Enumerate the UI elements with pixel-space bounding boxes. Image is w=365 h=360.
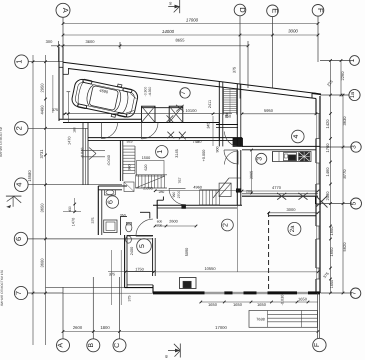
svg-text:4770: 4770 <box>272 185 282 190</box>
svg-text:3650: 3650 <box>40 203 45 213</box>
svg-text:8770: 8770 <box>342 169 347 179</box>
column P2-x <box>176 105 184 112</box>
svg-text:4490: 4490 <box>40 105 45 115</box>
svg-text:345: 345 <box>207 122 211 128</box>
svg-text:A: A <box>58 343 65 348</box>
wall junction-b1 <box>182 205 186 209</box>
wall bay-door-jamb <box>156 200 158 219</box>
wall left-low <box>124 235 126 288</box>
svg-text:ЛИНИЯ ОТМОСТКИ 150: ЛИНИЯ ОТМОСТКИ 150 <box>0 270 4 306</box>
svg-text:1: 1 <box>157 150 164 154</box>
node axis-7-left <box>14 286 27 299</box>
svg-text:15580: 15580 <box>27 170 32 182</box>
svg-text:ю: ю <box>168 2 173 5</box>
svg-text:5: 5 <box>139 244 146 248</box>
dim bottom-main <box>63 331 318 333</box>
svg-text:-4.350: -4.350 <box>148 87 152 97</box>
svg-text:1: 1 <box>14 60 23 64</box>
svg-text:375: 375 <box>128 296 132 302</box>
svg-text:7480: 7480 <box>193 139 203 144</box>
dim right-outer-chain <box>342 95 344 293</box>
svg-text:180: 180 <box>72 127 76 133</box>
wall room5-bottom <box>125 271 155 273</box>
svg-text:17000: 17000 <box>186 18 199 23</box>
svg-text:F: F <box>316 8 325 13</box>
svg-text:1650: 1650 <box>257 302 267 307</box>
door bath2-arc <box>106 199 108 201</box>
wall hall-left-v <box>82 123 84 185</box>
svg-text:375: 375 <box>233 67 237 73</box>
column veranda-x1 <box>277 193 286 200</box>
dim top-14000-3000 <box>63 34 318 36</box>
dim left-inner-chain <box>45 55 47 345</box>
node axis-A-bottom <box>57 339 70 352</box>
dim top-300-3600-8655 <box>51 45 248 47</box>
wall room5-door-jamb <box>140 211 150 213</box>
svg-text:700: 700 <box>157 224 163 228</box>
svg-text:4960: 4960 <box>193 186 201 190</box>
column P1-x <box>167 115 174 122</box>
node axis-6-left <box>14 232 27 245</box>
node room-1 <box>156 146 168 158</box>
wall bath1-h <box>216 124 238 126</box>
svg-text:D: D <box>238 7 247 13</box>
symbol north-arrow-top <box>179 0 181 13</box>
svg-text:1650: 1650 <box>298 296 308 301</box>
svg-text:2,090: 2,090 <box>143 187 153 191</box>
wall topleft-corner <box>58 47 60 67</box>
svg-text:2950: 2950 <box>40 83 45 93</box>
wall right-outer <box>319 96 321 293</box>
svg-text:8655: 8655 <box>176 38 186 43</box>
node axis-7-right <box>350 288 360 298</box>
wire axis-6-left-leader <box>28 238 153 240</box>
node axis-5-right <box>351 198 362 209</box>
wire aux-chain-200 <box>241 146 243 196</box>
wall bottom-seg4 <box>268 291 298 294</box>
wall left-mid-top <box>98 185 127 187</box>
svg-text:2700: 2700 <box>177 191 181 199</box>
porch terrace-outline <box>249 311 318 328</box>
node axis-B-bottom <box>87 339 100 352</box>
wire axis-7-right-leader <box>321 292 351 294</box>
wire axis-2-left-leader <box>28 127 88 129</box>
svg-text:1500: 1500 <box>142 156 150 160</box>
door room2-bay <box>169 188 186 205</box>
wall stairwell-right-v <box>236 84 238 147</box>
window right-window-2 <box>316 163 318 184</box>
wall room2-divider-v <box>236 150 238 206</box>
wall bay-notch <box>157 199 163 201</box>
svg-text:375: 375 <box>91 218 95 224</box>
svg-text:4: 4 <box>293 134 300 138</box>
wire axis-3-right-leader <box>320 146 351 148</box>
svg-text:3731: 3731 <box>39 149 44 159</box>
stairs room2-landing <box>219 183 231 197</box>
svg-text:850: 850 <box>225 115 231 119</box>
node room-2 <box>222 219 234 231</box>
svg-text:5950: 5950 <box>264 108 274 113</box>
wire top-ext-b <box>119 42 121 49</box>
node axis-C-bottom <box>113 339 126 352</box>
svg-text:1a: 1a <box>350 91 356 98</box>
wire axis-7-left-leader <box>28 292 63 294</box>
node room-5 <box>137 239 152 254</box>
wall bottom-seg5 <box>308 291 320 294</box>
wire axis-E-leader <box>272 17 274 88</box>
fixture fireplace <box>180 278 197 289</box>
svg-text:3600: 3600 <box>86 39 96 44</box>
svg-text:925: 925 <box>127 140 133 144</box>
wall room5-left <box>152 238 154 276</box>
svg-text:C: C <box>114 343 121 348</box>
column P3-x <box>167 132 174 139</box>
stairs room2-flight <box>199 190 201 205</box>
svg-text:7: 7 <box>350 291 357 295</box>
fixture bath-tub <box>104 220 117 233</box>
wire axis-F-leader <box>317 16 319 62</box>
boundary room2-2a-dashed <box>268 212 270 292</box>
window bottom-window-4 <box>297 291 308 293</box>
column P1 <box>142 106 156 122</box>
svg-text:1700: 1700 <box>325 143 330 153</box>
column corner-x <box>316 196 328 208</box>
svg-text:7638: 7638 <box>256 318 264 322</box>
fixture room1-closet <box>137 161 165 177</box>
fixture bath-sink <box>105 190 116 195</box>
door hall-to-5 <box>136 219 153 236</box>
wall garage-left <box>58 62 60 121</box>
window bottom-window-2 <box>233 291 244 293</box>
svg-text:980: 980 <box>127 165 131 171</box>
svg-text:6: 6 <box>14 237 23 241</box>
door kitchen3 <box>225 151 239 165</box>
wire axis-D-leader <box>239 16 241 99</box>
column P4-x <box>179 132 186 140</box>
wire aux-10550-v <box>236 206 238 272</box>
car in carport <box>70 75 140 121</box>
wire grid7-inner <box>108 271 318 273</box>
svg-text:1470: 1470 <box>67 136 71 144</box>
dim right-chain-inner <box>330 61 332 294</box>
wall left-mid <box>97 186 99 235</box>
node axis-1a-right <box>349 89 360 100</box>
column veranda-x2 <box>299 193 308 200</box>
wall wc-divider <box>121 216 128 218</box>
wall veranda-parapet <box>242 195 318 197</box>
svg-text:ю: ю <box>164 355 169 358</box>
svg-text:E: E <box>271 8 280 13</box>
wall junction-b2 <box>236 189 241 193</box>
fixture kitchen-counter <box>273 152 312 162</box>
wall left-step <box>152 285 154 293</box>
node room-4 <box>292 130 305 143</box>
wall room5-right-low <box>153 272 156 277</box>
dim left-outer-chain <box>32 55 34 345</box>
svg-text:1460: 1460 <box>325 167 330 177</box>
node room-6 <box>106 196 118 208</box>
svg-text:2600: 2600 <box>73 325 83 330</box>
door bath1 <box>224 150 238 164</box>
wall stair-left-v <box>119 140 121 181</box>
wall bottom-seg1 <box>153 291 205 294</box>
svg-text:990: 990 <box>172 192 176 198</box>
wire grid7-left-ext <box>63 292 153 294</box>
svg-text:5090: 5090 <box>185 248 189 256</box>
dim top-17000 <box>63 23 318 25</box>
symbol section-arrow-bottom <box>179 344 181 358</box>
window right-window-4 <box>316 268 318 279</box>
wall right-inner-1 <box>315 99 317 114</box>
wire axis-1a-right-leader <box>320 94 349 96</box>
fixture kitchen-stove <box>284 153 297 161</box>
wall garage-bottom <box>59 118 142 120</box>
porch side-line <box>317 293 319 338</box>
wire axis-C-bottom-leader <box>119 277 121 339</box>
wire aux-375-line <box>108 271 155 273</box>
wall right-inner-4 <box>315 239 317 268</box>
svg-text:620: 620 <box>144 165 148 171</box>
wire axis-A-bottom-leader <box>62 287 64 339</box>
window right-window-1 <box>316 114 318 139</box>
dim bottom-1650s <box>201 301 318 303</box>
svg-text:3600: 3600 <box>40 258 45 268</box>
wire axis-A-leader <box>62 17 64 62</box>
svg-text:375: 375 <box>109 272 115 276</box>
svg-text:3630: 3630 <box>342 116 347 126</box>
svg-text:1650: 1650 <box>329 247 334 257</box>
wire axis-B-bottom-leader <box>92 277 94 339</box>
wall junction-block <box>233 138 243 146</box>
stairs shaft-ladder <box>224 89 237 91</box>
node axis-F-bottom <box>313 338 326 351</box>
svg-text:-0.030: -0.030 <box>281 295 285 306</box>
svg-text:1800: 1800 <box>100 325 110 330</box>
wall stairwell-left-v <box>218 81 220 146</box>
svg-text:3000: 3000 <box>288 29 298 34</box>
svg-text:2: 2 <box>222 223 229 227</box>
wall right-inner-3 <box>315 184 317 226</box>
door shaft-lobby <box>225 132 240 147</box>
svg-text:3145: 3145 <box>175 149 179 157</box>
svg-text:2260: 2260 <box>340 71 345 81</box>
porch steps <box>268 314 318 316</box>
wall topright-corner <box>311 93 313 99</box>
wall hall-main-h <box>88 137 242 139</box>
node axis-4-left <box>14 178 28 192</box>
node room-2a <box>288 222 301 235</box>
node axis-D-top <box>234 4 246 16</box>
node room-3 <box>256 153 267 164</box>
svg-text:2а: 2а <box>289 225 296 232</box>
wire axis-4-left-leader <box>28 184 122 186</box>
wire aux-left-垂直 <box>110 250 112 305</box>
svg-text:7: 7 <box>14 291 23 295</box>
fixture kitchen-hob <box>299 152 310 161</box>
window bottom-window-1 <box>205 291 225 293</box>
fixture wc-bidet <box>126 236 132 243</box>
symbol section-mark-left <box>6 195 22 197</box>
node axis-1-left <box>15 55 29 69</box>
wire axis-5-right-leader <box>320 203 351 205</box>
wall bottom-seg2 <box>224 291 232 294</box>
svg-text:-0.040: -0.040 <box>107 155 111 166</box>
wall roof-slope-inner <box>68 69 316 99</box>
wall bath1-v <box>218 113 220 140</box>
svg-text:1650: 1650 <box>208 302 218 307</box>
wire top-ext-c <box>247 41 249 88</box>
node axis-1-right <box>350 56 360 66</box>
svg-text:3: 3 <box>351 145 358 149</box>
svg-text:A: A <box>61 8 70 13</box>
symbol ramp-arrow <box>82 149 106 151</box>
node axis-A-top <box>56 3 70 17</box>
fixture kitchen-sep <box>272 152 274 162</box>
svg-text:1650: 1650 <box>330 280 334 288</box>
svg-text:10550: 10550 <box>204 266 216 271</box>
svg-text:+0.000: +0.000 <box>202 150 206 162</box>
wire top-ext-a <box>58 41 60 62</box>
svg-text:1420: 1420 <box>325 119 330 129</box>
wall left-low-bottom <box>125 287 153 289</box>
node room-7 <box>180 88 190 98</box>
svg-text:2600: 2600 <box>169 220 177 224</box>
fixture small-closet <box>124 182 134 192</box>
svg-text:F: F <box>314 343 321 347</box>
svg-text:ЛИНИЯ ОТМОСТКИ: ЛИНИЯ ОТМОСТКИ <box>0 126 3 157</box>
svg-text:900: 900 <box>215 147 219 153</box>
wall bottom-seg3 <box>244 291 257 294</box>
svg-text:300: 300 <box>46 39 53 44</box>
column P2 <box>169 106 183 122</box>
wall right-inner-2 <box>315 139 317 164</box>
svg-text:2: 2 <box>14 126 23 130</box>
svg-text:767: 767 <box>178 178 182 184</box>
svg-text:10100: 10100 <box>185 108 197 113</box>
wall right-inner-5 <box>315 279 317 293</box>
svg-text:430: 430 <box>68 206 72 212</box>
wire bottomleft-ext <box>46 287 125 289</box>
stairs room1-lower-flight <box>135 175 137 188</box>
svg-text:B: B <box>88 343 95 348</box>
node axis-3-right <box>351 142 361 152</box>
window bottom-window-3 <box>257 291 268 293</box>
svg-text:7: 7 <box>180 91 187 95</box>
node axis-2-left <box>15 122 28 135</box>
svg-text:1650: 1650 <box>329 226 334 236</box>
node axis-F-top <box>312 5 324 17</box>
wall roof-slope-outer <box>63 62 318 93</box>
svg-text:2400: 2400 <box>130 247 134 255</box>
svg-text:3000: 3000 <box>287 207 297 212</box>
wall carport-strip <box>142 107 184 109</box>
svg-text:350: 350 <box>120 214 126 218</box>
fixture wc-toilet <box>126 223 132 232</box>
door room1-main <box>142 122 159 138</box>
svg-text:2411: 2411 <box>208 100 212 108</box>
wire axis-1-right-leader <box>320 60 350 62</box>
door garage-to-hall <box>102 123 118 139</box>
dim right-chain-upper <box>340 61 342 96</box>
svg-text:5: 5 <box>351 201 358 205</box>
svg-text:3: 3 <box>256 157 263 161</box>
door wc <box>117 141 119 143</box>
svg-text:-0.040: -0.040 <box>80 148 84 159</box>
svg-text:6: 6 <box>107 200 114 204</box>
window right-window-3 <box>316 226 318 239</box>
wall room5-top <box>127 234 153 236</box>
door hall-arc2 <box>98 185 100 200</box>
svg-text:1: 1 <box>349 58 356 62</box>
svg-text:1750: 1750 <box>135 267 143 271</box>
svg-text:14000: 14000 <box>162 29 175 34</box>
wall room2-top-h <box>153 204 242 206</box>
wall room2a-top <box>269 215 316 217</box>
svg-text:1650: 1650 <box>233 302 243 307</box>
svg-text:4: 4 <box>14 183 23 187</box>
svg-text:1470: 1470 <box>72 218 76 226</box>
svg-text:5620: 5620 <box>342 242 347 252</box>
wall veranda-step <box>315 196 317 204</box>
wall kitchen3-h <box>242 145 320 147</box>
svg-text:17000: 17000 <box>215 325 227 330</box>
svg-text:280: 280 <box>159 190 165 194</box>
wire axis-1-left-leader <box>28 61 63 63</box>
node axis-E-top <box>267 5 279 17</box>
wire axis-F-bottom-leader <box>318 293 320 338</box>
stairs room1-left-flight <box>123 145 135 147</box>
wall hall-opening <box>63 118 83 120</box>
